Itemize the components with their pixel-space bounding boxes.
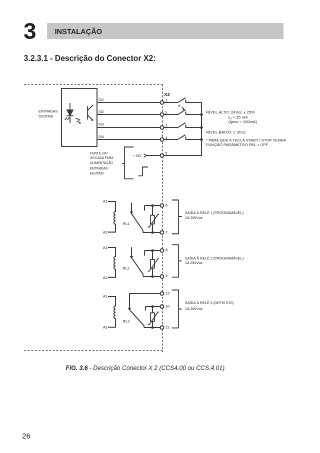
bracket relay 3 output bbox=[172, 290, 182, 328]
varistor RV3 bbox=[148, 307, 159, 328]
terminal 5 bbox=[160, 154, 164, 158]
switch S2 (START/STOP) bbox=[164, 110, 202, 115]
junction node at 9 bbox=[151, 275, 154, 278]
switch S1 bbox=[164, 98, 202, 103]
svg-text:NÍVEL BAIXO: ≤ 3Vcc: NÍVEL BAIXO: ≤ 3Vcc bbox=[206, 129, 246, 134]
svg-text:A1: A1 bbox=[103, 246, 108, 250]
svg-text:X2: X2 bbox=[164, 92, 170, 98]
relay coil RL3 bbox=[108, 297, 116, 328]
terminal 11 bbox=[160, 326, 164, 330]
relay coil RL2 bbox=[108, 248, 116, 278]
svg-text:1A 250Vca: 1A 250Vca bbox=[185, 261, 202, 265]
svg-text:FUNÇÃO PARÂMETRO P61 = OFF: FUNÇÃO PARÂMETRO P61 = OFF bbox=[206, 142, 269, 147]
svg-text:3: 3 bbox=[165, 123, 167, 127]
svg-text:A2: A2 bbox=[103, 276, 108, 280]
contact RL1 pole bbox=[130, 203, 133, 215]
actuation arrow on S2 bbox=[182, 107, 185, 110]
terminal 1 bbox=[160, 101, 164, 105]
net +24V label and arrow bbox=[133, 154, 160, 158]
svg-text:SAÍDA À RELÉ 2 (PROGRAMÁVEL): SAÍDA À RELÉ 2 (PROGRAMÁVEL) bbox=[185, 255, 244, 260]
svg-text:RL2: RL2 bbox=[123, 266, 130, 270]
wire to terminal 8 bbox=[145, 251, 161, 256]
wire terminal 12 to pole bbox=[130, 294, 161, 309]
junction node at 11 bbox=[151, 326, 154, 329]
svg-text:DI2: DI2 bbox=[99, 110, 105, 114]
svg-text:+ 24V: + 24V bbox=[133, 154, 142, 158]
varistor RV2 bbox=[148, 251, 159, 277]
svg-text:8: 8 bbox=[166, 248, 168, 252]
wire DI1 bbox=[97, 102, 160, 104]
dashed frame top border bbox=[24, 84, 163, 86]
svg-text:1A 250Vca: 1A 250Vca bbox=[185, 216, 202, 220]
connector X2 dashed line bbox=[162, 85, 164, 353]
terminal 6 bbox=[160, 204, 164, 208]
wire to terminal 7 bbox=[143, 232, 160, 234]
bracket for 24V source bbox=[122, 147, 133, 179]
wire to terminal 6 bbox=[145, 206, 161, 211]
terminal 4 bbox=[160, 138, 164, 142]
svg-text:5: 5 bbox=[165, 151, 167, 155]
contact RL3 pole arrow bbox=[128, 308, 131, 311]
svg-text:11: 11 bbox=[166, 326, 170, 330]
svg-text:RL1: RL1 bbox=[123, 222, 130, 226]
svg-text:DI1: DI1 bbox=[99, 98, 105, 102]
svg-text:SAÍDA À RELÉ 1 (PROGRAMÁVEL): SAÍDA À RELÉ 1 (PROGRAMÁVEL) bbox=[185, 210, 244, 215]
svg-text:12: 12 bbox=[166, 292, 170, 296]
junction on bus row 4 bbox=[200, 138, 203, 141]
varistor RV1 bbox=[148, 206, 159, 233]
bracket relay 2 output bbox=[172, 245, 182, 278]
relay coil RL1 bbox=[108, 202, 116, 233]
svg-text:1A 250Vca: 1A 250Vca bbox=[185, 307, 202, 311]
junction node at 10 bbox=[151, 305, 154, 308]
svg-text:A2: A2 bbox=[103, 231, 108, 235]
wire DI4 bbox=[97, 139, 160, 141]
terminal 9 bbox=[160, 275, 164, 279]
digital inputs box U1 bbox=[62, 89, 98, 147]
wire DI2 bbox=[97, 114, 160, 116]
svg-text:FIG. 3.6 - Descrição Conector: FIG. 3.6 - Descrição Conector X 2 (CCS4.… bbox=[66, 365, 225, 372]
optocoupler LED D1 bbox=[65, 103, 74, 123]
contact RL1 blade bbox=[132, 214, 143, 233]
note NIVEL ALTO bbox=[206, 110, 286, 148]
terminal 7 bbox=[160, 231, 164, 235]
terminal 12 bbox=[160, 292, 164, 296]
svg-text:NÍVEL ALTO: 24Vcc ± 25%: NÍVEL ALTO: 24Vcc ± 25% bbox=[206, 110, 255, 115]
svg-text:ENTRADAS: ENTRADAS bbox=[90, 166, 109, 170]
isolated supply 0V symbol bbox=[139, 167, 149, 176]
terminal 10 bbox=[160, 305, 164, 309]
wire to terminal 10 bbox=[146, 307, 161, 311]
svg-text:DIGITAIS: DIGITAIS bbox=[39, 115, 54, 119]
phototransistor Q1 bbox=[88, 105, 94, 121]
svg-text:6: 6 bbox=[166, 203, 168, 207]
svg-text:FONTE 24V: FONTE 24V bbox=[90, 151, 109, 155]
section header bar INSTALACAO bbox=[47, 23, 284, 39]
contact RL3 blade bbox=[130, 311, 144, 328]
terminal 2 bbox=[160, 113, 164, 117]
junction node at 6 bbox=[151, 204, 154, 207]
junction node at 8 bbox=[151, 249, 154, 252]
wire to terminal 9 bbox=[143, 276, 160, 278]
svg-text:ISOLADA PARA: ISOLADA PARA bbox=[90, 156, 114, 160]
svg-text:A1: A1 bbox=[103, 295, 108, 299]
svg-text:3: 3 bbox=[24, 18, 37, 44]
label SAIDA A RELE 2 bbox=[185, 255, 244, 265]
terminal 3 bbox=[160, 126, 164, 130]
wire to terminal 11 bbox=[144, 327, 160, 329]
junction on bus row 2 bbox=[200, 113, 203, 116]
light arrows bbox=[76, 118, 82, 124]
svg-text:ENTRADAS: ENTRADAS bbox=[39, 110, 59, 114]
junction node at 7 bbox=[151, 231, 154, 234]
svg-text:DI4: DI4 bbox=[99, 135, 105, 139]
svg-text:(Ipico = 100mA): (Ipico = 100mA) bbox=[228, 119, 257, 124]
svg-text:9: 9 bbox=[166, 274, 168, 278]
label SAIDA A RELE 3 bbox=[185, 300, 234, 311]
dashed frame bottom border bbox=[24, 350, 163, 352]
svg-text:RL3: RL3 bbox=[123, 319, 130, 323]
svg-text:SAÍDA À RELÉ 3 (DEFEITOS): SAÍDA À RELÉ 3 (DEFEITOS) bbox=[185, 300, 234, 305]
svg-text:DI3: DI3 bbox=[99, 123, 105, 127]
+24V bus wire bbox=[164, 103, 202, 156]
bracket relay 1 output bbox=[172, 200, 182, 234]
contact RL2 pole bbox=[130, 247, 133, 259]
wire DI3 bbox=[97, 127, 160, 129]
svg-text:ALIMENTAÇÃO: ALIMENTAÇÃO bbox=[90, 160, 114, 165]
switch S3 bbox=[164, 123, 202, 128]
svg-text:3.2.3.1 - Descrição do Conecto: 3.2.3.1 - Descrição do Conector X2: bbox=[24, 54, 156, 63]
svg-text:INSTALAÇÃO: INSTALAÇÃO bbox=[55, 27, 103, 36]
svg-text:A2: A2 bbox=[103, 326, 108, 330]
switch S4 bbox=[164, 135, 202, 140]
junction on bus row 3 bbox=[200, 126, 203, 129]
label SAIDA A RELE 1 bbox=[185, 210, 244, 220]
terminal 8 bbox=[160, 249, 164, 253]
svg-text:A1: A1 bbox=[103, 199, 108, 203]
svg-text:7: 7 bbox=[166, 230, 168, 234]
svg-text:DIGITAIS: DIGITAIS bbox=[90, 171, 104, 175]
label FONTE 24V ISOLADA bbox=[90, 151, 114, 175]
svg-text:26: 26 bbox=[22, 432, 30, 441]
contact RL2 blade bbox=[132, 259, 143, 277]
svg-text:10: 10 bbox=[166, 304, 170, 308]
